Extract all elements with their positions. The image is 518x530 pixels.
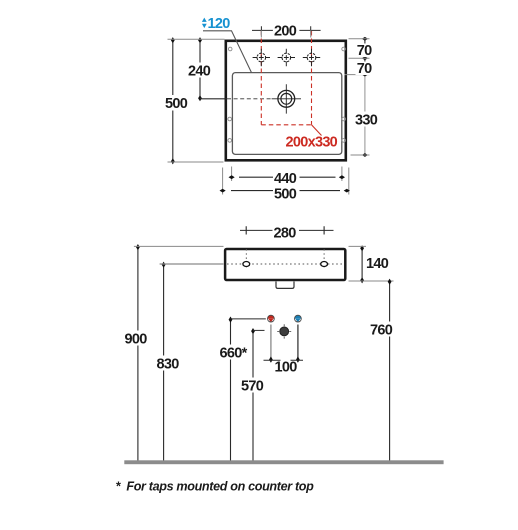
dimension 240 (left, to drain axis) — [188, 37, 228, 101]
dimension 280 (oval spacing) — [240, 225, 334, 242]
dimension 570 (floor to waste) — [240, 328, 265, 461]
svg-text:900: 900 — [125, 331, 148, 347]
svg-text:200: 200 — [274, 24, 297, 40]
dimension 100 (supply spacing) — [264, 325, 304, 376]
extension line fixing hole axis to 830 — [160, 263, 224, 265]
red leader line for 200x330 — [312, 125, 322, 136]
fixing hole left upper — [228, 117, 232, 121]
dimension 900 (floor to basin top) — [124, 244, 224, 462]
extension line basin bottom right — [349, 280, 394, 282]
svg-text:440: 440 — [274, 171, 297, 187]
extension line supply axis — [231, 318, 266, 320]
extension line basin top to 900 — [134, 245, 224, 247]
svg-text:330: 330 — [355, 112, 378, 128]
plan view: inner basin rim rectangle — [232, 73, 341, 155]
svg-text:120: 120 — [208, 16, 231, 32]
extension line: square top edge to 70 dim — [349, 38, 370, 40]
red dashed tap zone: right vertical — [311, 31, 313, 125]
svg-text:70: 70 — [357, 43, 372, 59]
dimension 140 (basin height, right) — [349, 245, 394, 283]
tap hole left — [253, 49, 270, 66]
elevation: right oval fixing hole — [321, 262, 328, 267]
svg-text:570: 570 — [241, 378, 264, 394]
svg-text:280: 280 — [274, 226, 297, 242]
svg-text:500: 500 — [165, 96, 188, 112]
dimension 500 (left, overall plan height) — [165, 37, 225, 164]
cold water supply point (blue) — [294, 315, 301, 322]
fixing hole right upper — [342, 117, 346, 121]
drain hole (plan) — [272, 84, 301, 113]
svg-text:* For taps mounted on counter: * For taps mounted on counter top — [116, 480, 315, 494]
elevation: dashed centreline through fixing holes — [227, 263, 344, 265]
elevation view: basin front rectangle — [225, 249, 345, 280]
svg-text:760: 760 — [370, 322, 393, 338]
floor line — [124, 460, 443, 464]
svg-text:140: 140 — [366, 256, 389, 272]
elevation: left oval fixing hole — [243, 262, 250, 267]
dimension 500 (bottom of plan, overall) — [220, 168, 350, 203]
red dashed tap zone: left vertical — [260, 31, 262, 125]
leader line for 120 — [203, 31, 252, 73]
elevation: waste outlet below basin — [276, 282, 294, 289]
fixing hole left lower — [228, 139, 232, 143]
red dashed tap zone: bottom edge — [261, 124, 311, 126]
extension line top-left (plan) — [168, 38, 225, 40]
dimension 830 (floor to fixing holes) — [156, 262, 224, 462]
tap hole right — [303, 49, 320, 66]
elevation: dotted vertical through left oval — [245, 249, 247, 270]
fixing hole top-right — [342, 47, 346, 51]
waste connection point (dark) — [277, 324, 291, 338]
extension line: rim bottom edge — [351, 154, 370, 156]
extension line: rim top edge — [345, 74, 370, 76]
dimension 440 (bottom of plan) — [229, 167, 346, 187]
blue label 120 with depth arrow — [202, 16, 252, 73]
centreline dashed (plan, drain axis) — [227, 98, 271, 100]
extension line basin top right — [349, 245, 367, 247]
hot water supply point (red) — [267, 315, 274, 322]
svg-text:830: 830 — [157, 356, 180, 372]
elevation: dotted vertical through right oval — [323, 249, 325, 270]
tap hole centre — [278, 49, 295, 66]
dimension 760 (floor to basin bottom) — [369, 279, 396, 462]
plan view: outer square of basin (500x500) — [226, 41, 346, 161]
gray drop line from hot tap — [270, 325, 272, 361]
dimensions 70 / 70 / 330 (right side of plan) — [345, 37, 379, 157]
svg-text:240: 240 — [188, 63, 211, 79]
fixing hole right lower — [342, 139, 346, 143]
dimension 660* (floor to supply taps) — [219, 317, 266, 461]
svg-text:660*: 660* — [220, 345, 248, 361]
extension line waste axis — [253, 329, 265, 331]
drop line from cold tap — [297, 325, 299, 361]
svg-text:100: 100 — [275, 360, 298, 376]
fixing hole top-left — [228, 47, 232, 51]
svg-text:200x330: 200x330 — [286, 135, 338, 151]
extension line: tap hole axis — [349, 57, 370, 59]
dimension 200 (tap hole spacing, top) — [252, 23, 321, 40]
svg-text:500: 500 — [274, 186, 297, 202]
svg-text:70: 70 — [357, 61, 372, 77]
extension line bottom-left (plan) — [168, 161, 224, 163]
